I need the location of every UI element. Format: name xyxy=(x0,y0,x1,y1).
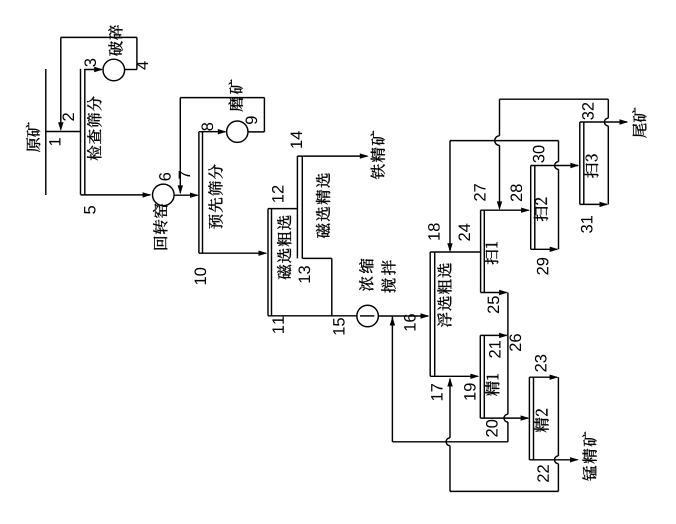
label 破碎 xyxy=(108,25,123,56)
label 3 xyxy=(84,59,96,67)
unit box 磁选粗选 magnetic rougher xyxy=(268,209,297,316)
label 12 xyxy=(272,186,284,202)
wire stream 14 (iron concentrate out) xyxy=(297,153,368,158)
label 2 xyxy=(62,113,74,121)
wire stream 16 (to flotation rougher) xyxy=(378,313,429,318)
label 31 xyxy=(581,216,593,233)
wire streams 11/15 (magnetic tailings to thickener) xyxy=(268,315,357,317)
wire stream 22 return (up into rougher bottom) with jump xyxy=(446,378,453,492)
wire stream 3 (oversize to crusher) xyxy=(85,67,103,72)
wire scav3 top edge / tailings out xyxy=(580,119,629,124)
wire cleaner2 top edge with arrow (stream 23) xyxy=(529,375,558,380)
label 磁选精选 xyxy=(316,173,330,238)
unit 检查筛分 check screen (double line) xyxy=(81,69,85,195)
label 30 xyxy=(533,145,545,162)
wire scav2-bottom to rougher-feed link xyxy=(450,140,559,142)
label 13 xyxy=(298,266,310,282)
label 11 xyxy=(272,317,283,333)
wire cleaner1 right edge with jump / stream 20 return xyxy=(392,335,508,441)
label 28 xyxy=(510,184,522,201)
label 23 xyxy=(535,355,547,372)
unit box 扫1 scavenger 1 xyxy=(481,210,485,292)
wire scav2 right edge riser with jump xyxy=(555,141,559,250)
label 铁精矿 xyxy=(371,131,385,179)
label 精2 xyxy=(534,409,548,432)
label 5 xyxy=(84,206,96,214)
wire cleaner2 right edge with jump / stream 22 return path xyxy=(450,377,558,491)
unit 预先筛分 pre-screen (double line) xyxy=(199,132,203,254)
unit box 浮选粗选 flotation rougher xyxy=(430,252,480,376)
unit box 精2 cleaner 2 xyxy=(529,377,533,460)
label 15 xyxy=(333,318,345,334)
unit box 扫2 scavenger 2 xyxy=(531,166,535,250)
wire stream 10 (undersize to magnetic rougher) xyxy=(199,251,267,256)
label 16 xyxy=(404,314,416,330)
label 27 xyxy=(474,184,486,201)
wire stream 8 (oversize to mill) xyxy=(199,129,227,134)
wire streams 18/24 (scav2 return feed down into rougher) xyxy=(447,141,452,252)
wire scav3 right edge with jump and recycle top link xyxy=(500,99,609,204)
label 20 xyxy=(486,420,498,437)
label 磁选粗选 xyxy=(277,215,291,279)
wire crusher loop top xyxy=(61,37,137,69)
node 原矿 feed header line xyxy=(45,69,47,195)
label 17 xyxy=(431,384,442,400)
label 浓缩 xyxy=(359,259,374,291)
wire mill loop top xyxy=(180,98,264,132)
label 24 xyxy=(458,224,470,241)
label 1 xyxy=(49,138,60,145)
label 原矿 xyxy=(26,122,40,152)
wire scav3 bottom edge / stream 31 xyxy=(580,202,609,207)
wire cleaner-tailings return riser + up arrow xyxy=(390,316,395,442)
wire streams 17/19 (rougher concentrate to cleaner1) xyxy=(430,374,479,379)
label 18 xyxy=(428,223,440,239)
label 预先筛分 xyxy=(208,164,223,228)
wire stream 25/26 connector down to cleaner1 xyxy=(507,293,509,336)
label 22 xyxy=(537,465,549,482)
wire stream 1 (ore to check screen) xyxy=(46,131,81,133)
label 4 xyxy=(137,61,148,69)
unit circle 磨矿 mill xyxy=(227,121,248,142)
label 扫2 xyxy=(534,198,548,221)
label 8 xyxy=(201,123,213,131)
label 19 xyxy=(464,383,476,399)
label 14 xyxy=(291,131,302,148)
wire stream 6 (kiln to pre-screen) xyxy=(174,193,199,198)
unit box 磁选精选 magnetic cleaner xyxy=(297,156,331,316)
label 10 xyxy=(194,268,206,284)
label 回转窑 xyxy=(153,204,167,250)
label 6 xyxy=(159,173,171,181)
unit circle 破碎 crusher xyxy=(103,59,125,81)
label 尾矿 tailings xyxy=(632,108,646,138)
label 磨矿 xyxy=(229,79,243,111)
wire cleaner1 top edge with arrow (stream 26) xyxy=(480,333,508,338)
label 21 xyxy=(489,341,501,358)
label 浮选粗选 xyxy=(437,263,451,327)
wire scav2 bottom edge / stream 29 xyxy=(531,247,559,252)
label 锰精矿 manganese concentrate xyxy=(582,432,596,481)
wire stream 27 (scav3 conc return, down into scav1) with jump xyxy=(495,99,502,210)
unit box 精1 cleaner 1 xyxy=(480,335,484,418)
label 搅拌 xyxy=(381,260,395,292)
wire scav2 top edge / stream 30 to scav3 xyxy=(531,163,580,168)
label 扫1 xyxy=(484,242,498,264)
label 26 xyxy=(509,334,521,351)
label 29 xyxy=(537,258,549,275)
label 精1 xyxy=(485,374,499,396)
label 32 xyxy=(582,103,594,120)
wire stream 7 (mill return) xyxy=(178,98,183,195)
wire scav1 top edge / stream 28 to scav2 xyxy=(481,208,530,213)
label 检查筛分 xyxy=(87,96,101,160)
wire scav1 bottom edge / stream 25 xyxy=(481,290,508,295)
label 9 xyxy=(245,116,257,124)
unit box 扫3 scavenger 3 xyxy=(580,122,584,204)
wire stream 5 (undersize to kiln) xyxy=(81,192,152,197)
label 7 xyxy=(179,171,190,179)
wire cleaner2 bottom edge / manganese concentrate out xyxy=(529,457,578,462)
wire stream 2 (crusher return) xyxy=(58,37,63,131)
unit circle 浓缩搅拌 thickener-agitator xyxy=(357,305,379,327)
wire cleaner1 bottom edge / stream to cleaner2 xyxy=(480,415,529,420)
label 扫3 xyxy=(584,154,598,177)
unit circle 回转窑 rotary kiln xyxy=(153,184,175,206)
label 25 xyxy=(487,296,499,313)
